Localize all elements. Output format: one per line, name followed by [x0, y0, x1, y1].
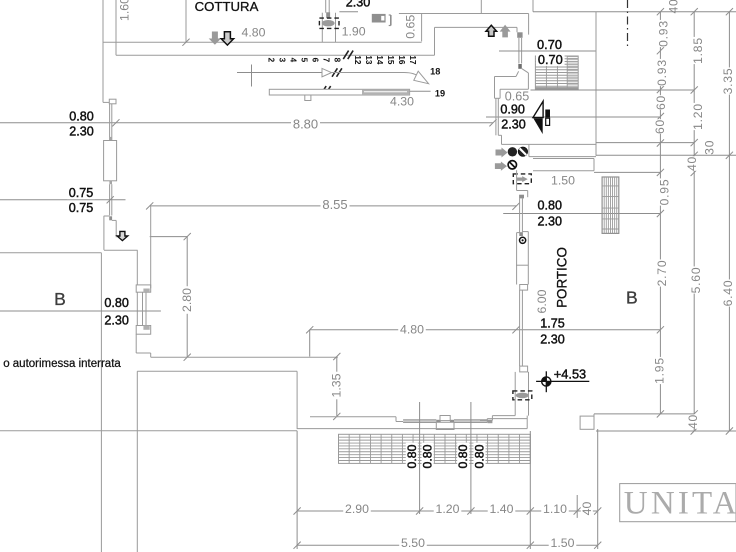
down arrow lower left: [117, 231, 128, 240]
inner wall face x150.7: [150, 206, 152, 288]
centerline dash-dot: [627, 0, 629, 48]
label 0.75 upper: [67, 187, 95, 199]
wall corner lines lower-left: [104, 249, 138, 251]
bottom wall outer edge: [297, 428, 528, 430]
planter hatch strip: [339, 434, 531, 463]
ext line 4.80 left: [309, 330, 311, 357]
room divider left of COTTURA: [185, 0, 187, 42]
svg-text:12: 12: [353, 55, 362, 65]
portico wall jog upper: [516, 170, 518, 190]
dim line 8.80: [0, 122, 493, 124]
0.65 box top right: [399, 13, 529, 15]
svg-text:4.80: 4.80: [242, 26, 266, 40]
stair path to 18: [332, 73, 420, 78]
column blob: [322, 20, 335, 26]
dim extension top y11.7: [533, 11, 736, 13]
entry window double lines: [518, 38, 520, 64]
dim line 8.55: [150, 205, 517, 207]
label 0.75 lower: [67, 202, 95, 214]
svg-text:6.40: 6.40: [721, 280, 735, 307]
drain circle symbol: [520, 237, 526, 243]
svg-text:0.80: 0.80: [421, 444, 435, 468]
svg-text:18: 18: [430, 67, 440, 77]
dashed column box portico bottom: [513, 391, 532, 400]
window embrasure top center: [321, 13, 323, 43]
svg-text:6: 6: [311, 58, 320, 63]
svg-text:0.93: 0.93: [657, 20, 671, 47]
svg-text:0.95: 0.95: [658, 179, 672, 206]
parapet dark segments: [436, 420, 440, 423]
svg-text:0.80: 0.80: [456, 444, 470, 468]
svg-text:0.93: 0.93: [655, 59, 669, 86]
wall right vertical x596: [595, 12, 597, 156]
labels bottom dims: [343, 503, 371, 515]
svg-text:1.20: 1.20: [691, 103, 705, 130]
section line left: [0, 310, 161, 312]
svg-text:0.90: 0.90: [500, 102, 525, 116]
dim line bottom y511: [297, 510, 598, 512]
section marker outline rect: [546, 118, 550, 125]
label 4.80 middle: [398, 323, 426, 335]
svg-text:1.20: 1.20: [436, 502, 460, 516]
window1 bottom connector: [109, 137, 112, 141]
portico wall mid: [516, 233, 518, 285]
gray block right: [488, 420, 493, 423]
svg-text:0.80: 0.80: [405, 444, 419, 468]
svg-text:1.50: 1.50: [551, 173, 575, 187]
label 0.70 second: [536, 53, 565, 65]
boiler symbol gray bar: [372, 14, 386, 23]
corner box: [580, 416, 594, 429]
svg-text:19: 19: [435, 88, 445, 98]
ext line y413.9: [594, 413, 694, 415]
svg-text:60: 60: [653, 119, 667, 134]
svg-text:2.30: 2.30: [540, 332, 565, 346]
dim line 0.75: [0, 199, 126, 201]
wall top horizontal outer: [103, 41, 422, 43]
svg-text:o autorimessa interrata: o autorimessa interrata: [3, 358, 121, 370]
right dim labels line3: [722, 67, 734, 94]
svg-text:1.35: 1.35: [329, 373, 343, 397]
window3 double lines: [142, 292, 144, 325]
level marker circle: [542, 377, 547, 382]
wall left outer vertical: [102, 0, 104, 102]
svg-text:2.80: 2.80: [180, 288, 194, 312]
dim line bottom y545.2: [297, 544, 598, 546]
line to 19: [410, 90, 431, 92]
svg-text:8.80: 8.80: [293, 117, 318, 132]
dim line 0.80/2.30 portico: [503, 213, 660, 215]
dim extension y90: [531, 89, 695, 91]
dashed column box top: [319, 18, 339, 28]
window2 top connector: [109, 181, 112, 184]
dashed column box portico top: [513, 174, 531, 184]
dim extension y155.3: [596, 154, 736, 156]
svg-text:4: 4: [288, 58, 297, 63]
dim extension y142.6: [596, 142, 694, 144]
portico step rect: [533, 158, 594, 160]
svg-text:2: 2: [266, 58, 275, 63]
dim line 0.90-2.30 y117: [486, 116, 660, 118]
portico south wall bits: [492, 415, 515, 417]
svg-text:B: B: [626, 288, 638, 308]
tick at divider: [182, 39, 189, 46]
svg-text:4.30: 4.30: [390, 94, 414, 108]
svg-text:B: B: [54, 289, 66, 309]
svg-text:0.75: 0.75: [69, 201, 94, 215]
label 8.55: [320, 198, 349, 211]
label 8.80: [291, 118, 320, 131]
window3 cap bottom: [136, 326, 151, 335]
svg-text:2.90: 2.90: [345, 502, 369, 516]
handrail notch: [305, 95, 311, 101]
wall jog to ramp: [135, 334, 137, 353]
portico long window: [519, 290, 521, 366]
svg-text:+4.53: +4.53: [554, 367, 586, 382]
down arrow gray solid: [209, 32, 221, 45]
wall corner vertical x116: [115, 42, 117, 55]
svg-text:15: 15: [386, 55, 395, 65]
ramp left vertical: [136, 371, 138, 552]
stair direction line with cross: [251, 65, 253, 87]
svg-text:COTTURA: COTTURA: [195, 0, 259, 14]
left wall lower piece: [103, 216, 105, 250]
svg-text:1.85: 1.85: [691, 37, 705, 64]
dim line 1 x660.4: [659, 12, 661, 414]
svg-text:60: 60: [654, 95, 668, 110]
stair hatch block B: [602, 177, 619, 233]
top boundary verticals: [480, 0, 482, 14]
label 2.30 top underline: [339, 11, 358, 13]
svg-text:2.30: 2.30: [501, 117, 526, 131]
stair break line: [321, 46, 352, 95]
svg-text:0.80: 0.80: [69, 109, 94, 123]
svg-text:1.90: 1.90: [342, 25, 366, 39]
window2 double lines: [109, 184, 111, 215]
up arrow gray solid: [500, 25, 511, 38]
wall top horizontal inner: [116, 54, 435, 56]
dim line 2 x694.2: [693, 12, 695, 431]
stair hatch block A: [535, 56, 578, 89]
dim extension y172.4: [594, 171, 660, 173]
svg-text:8: 8: [333, 58, 342, 63]
entry inner wall step: [434, 27, 436, 55]
entry niche outline: [527, 73, 529, 89]
portico window upper: [519, 195, 524, 199]
svg-text:0.80: 0.80: [104, 296, 129, 310]
entry window sill dark square: [518, 64, 522, 69]
svg-text:17: 17: [408, 55, 417, 65]
svg-text:0.70: 0.70: [537, 37, 562, 52]
window1 top jamb block: [109, 99, 116, 104]
svg-text:0.80: 0.80: [537, 199, 562, 213]
svg-text:3.35: 3.35: [721, 68, 735, 95]
entry door jamb: [516, 27, 518, 32]
portico long window bottom square: [520, 366, 528, 372]
svg-text:40: 40: [686, 414, 700, 429]
ramp top edge: [151, 356, 338, 358]
svg-text:0.65: 0.65: [505, 89, 530, 103]
dim line 3 x729.4: [728, 12, 730, 431]
svg-text:8.55: 8.55: [322, 197, 347, 212]
label 2.80: [181, 286, 193, 314]
svg-text:2.30: 2.30: [537, 215, 562, 229]
window double lines top: [325, 0, 327, 13]
right dim labels line2: [692, 37, 704, 64]
svg-text:2.70: 2.70: [655, 260, 669, 287]
svg-text:1.10: 1.10: [543, 502, 567, 516]
corner vertical x594: [593, 414, 595, 429]
arrow head 18: [414, 71, 429, 84]
wall left inner vertical: [115, 0, 117, 42]
svg-text:UNITA: UNITA: [624, 486, 736, 522]
portico long window top square: [520, 285, 528, 291]
bottom wall step: [395, 417, 397, 422]
svg-text:6.00: 6.00: [535, 289, 549, 313]
svg-text:0.75: 0.75: [69, 186, 94, 200]
svg-text:16: 16: [397, 55, 406, 65]
window bottom gray square: [519, 233, 523, 236]
section marker upper triangle: [533, 101, 543, 117]
ramp right wall: [296, 371, 298, 428]
portico wall lower: [514, 372, 516, 416]
window2 sill square: [109, 216, 112, 220]
up arrow black outline: [486, 25, 497, 36]
dim line 1.35: [336, 357, 338, 417]
UNITA title box: [620, 484, 736, 522]
window3 cap top: [136, 285, 151, 292]
bottom wall right step: [486, 419, 488, 423]
window sill gray square: [326, 12, 330, 18]
dim line 0.70: [499, 50, 596, 52]
entry south wall band: [502, 143, 597, 145]
svg-text:5: 5: [299, 58, 308, 63]
svg-text:7: 7: [322, 58, 331, 63]
door symbols arrows and circles: [496, 148, 508, 158]
stair arrow open head: [322, 68, 332, 76]
svg-text:14: 14: [375, 55, 384, 65]
ramp bottom edge: [137, 370, 297, 372]
svg-text:0.65: 0.65: [404, 15, 418, 39]
dim line 4.80/1.75/2.30 y329.8: [310, 329, 661, 331]
svg-text:4.80: 4.80: [400, 322, 424, 336]
svg-text:2.30: 2.30: [346, 0, 371, 10]
svg-text:2.30: 2.30: [69, 124, 94, 138]
dim line 2.80: [186, 237, 188, 358]
pillar rect left wall: [104, 141, 117, 181]
pillar bottom center: [440, 416, 450, 421]
svg-text:30: 30: [703, 140, 717, 155]
svg-text:1.60: 1.60: [118, 0, 132, 21]
section marker black rect: [545, 110, 550, 118]
svg-text:13: 13: [364, 55, 373, 65]
svg-text:PORTICO: PORTICO: [554, 247, 569, 308]
bottom left outer corner: [0, 430, 297, 432]
dim ext 2.80 top: [150, 236, 188, 238]
svg-text:5.50: 5.50: [401, 536, 425, 550]
svg-text:1.40: 1.40: [490, 502, 514, 516]
svg-text:2.30: 2.30: [104, 313, 129, 327]
hatch dividers: [419, 434, 421, 463]
svg-text:0.70: 0.70: [538, 52, 563, 67]
bracket symbol: [390, 15, 392, 26]
svg-text:3: 3: [277, 58, 286, 63]
entry window head square: [517, 32, 522, 38]
svg-text:5.60: 5.60: [689, 267, 703, 294]
bottom wall inner edge: [310, 416, 396, 418]
svg-text:40: 40: [685, 156, 699, 171]
down arrow black outline: [221, 32, 233, 45]
svg-text:1.75: 1.75: [540, 317, 565, 331]
svg-text:40: 40: [667, 0, 681, 14]
vertical ext lines bottom: [296, 431, 298, 549]
labels 0.80 rotated over hatch: [406, 443, 418, 471]
parapet band double lines: [403, 420, 436, 423]
top right boundary corner: [528, 14, 530, 35]
splayed jamb diagonal: [522, 69, 529, 73]
portico wall top segment: [495, 98, 497, 135]
section marker lower triangle: [533, 118, 542, 134]
hatch grid verticals: [348, 434, 350, 463]
svg-text:40: 40: [580, 502, 594, 516]
handrail bar: [269, 89, 409, 95]
bottom right wall edge: [596, 430, 736, 432]
window1 double lines: [109, 104, 111, 141]
svg-text:1.50: 1.50: [551, 536, 575, 550]
svg-text:1.95: 1.95: [653, 357, 667, 384]
svg-text:0.80: 0.80: [473, 444, 487, 468]
label 1.35: [330, 372, 342, 400]
